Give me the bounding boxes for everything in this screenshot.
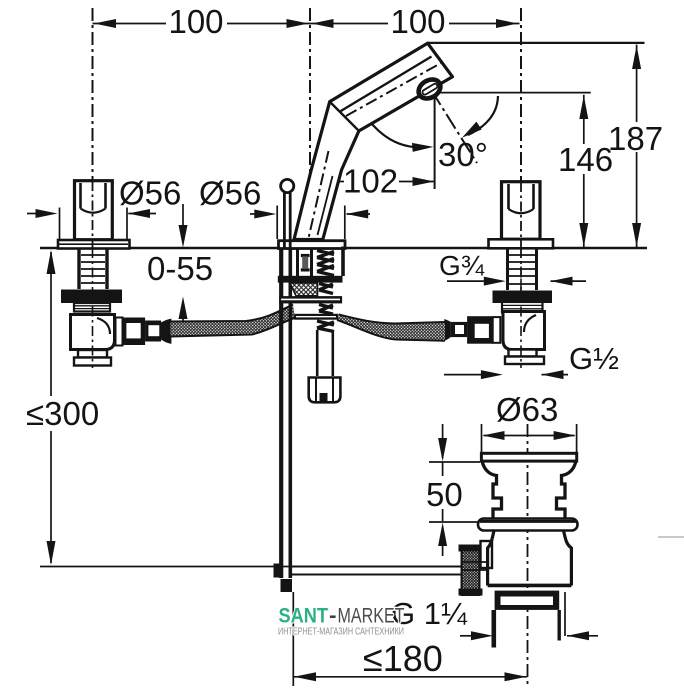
right lock rings (502, 302, 543, 313)
right hose spool waist (451, 322, 467, 337)
dimension 50 (426, 424, 480, 556)
clamp bracket (481, 541, 493, 568)
lift rod (281, 193, 290, 578)
top face inner edge (340, 57, 432, 112)
vertical line from aerator (102 reference) (434, 94, 436, 189)
lift rod lower tab (274, 564, 283, 578)
svg-text:Ø56: Ø56 (119, 175, 181, 212)
lattice clamp block (290, 283, 318, 296)
left handle escutcheon (58, 240, 130, 249)
drain head castellated profile (482, 462, 576, 519)
faint crop line bottom right (658, 536, 684, 538)
dimension 187 vertical (428, 43, 663, 247)
right handle escutcheon (489, 239, 554, 248)
left mounting nut (61, 290, 122, 304)
dimension d56 left flange arrows (27, 208, 156, 240)
left lock rings (74, 303, 110, 312)
svg-text:G½: G½ (569, 341, 619, 376)
middle escutcheon flange (279, 241, 346, 249)
dimension 100 right (310, 3, 520, 40)
left handle centerline below deck (92, 248, 94, 368)
svg-text:50: 50 (426, 476, 463, 513)
svg-text:SANT: SANT (279, 605, 329, 628)
drain centerline (527, 424, 529, 686)
left braided hose (171, 305, 297, 337)
right hose spool flare (444, 319, 451, 341)
threaded stud coil lower (317, 321, 334, 332)
dimension 146 vertical (438, 93, 613, 247)
deck line (40, 247, 647, 250)
lift rod knob (281, 179, 294, 192)
G1 1/4 dimension (391, 592, 598, 640)
watermark SANT-MARKET (278, 605, 405, 638)
drain head top plate (481, 453, 576, 461)
svg-text:-: - (329, 605, 337, 628)
svg-text:ИНТЕРНЕТ-МАГАЗИН САНТЕХНИКИ: ИНТЕРНЕТ-МАГАЗИН САНТЕХНИКИ (278, 627, 404, 638)
dimension le300 (26, 250, 292, 567)
left shank threaded (79, 249, 107, 289)
spout axis dash-dot upper (346, 63, 441, 116)
coil between bars (319, 284, 333, 294)
svg-text:146: 146 (558, 141, 613, 178)
black bar 1 (278, 276, 343, 283)
lift rod end tip (281, 579, 293, 592)
left hose spool waist (145, 321, 161, 342)
black bar 3 (294, 314, 338, 320)
svg-text:≤300: ≤300 (26, 395, 99, 432)
coil below bar2 (319, 305, 333, 315)
centerline left handle (92, 8, 94, 240)
pop-up rod horizontal (292, 567, 462, 575)
G1/2 label and arrows (444, 341, 619, 379)
centerline right handle (520, 8, 522, 240)
svg-text:MARKET: MARKET (338, 605, 405, 628)
right elbow foot (505, 350, 544, 365)
dimension 100 left (93, 3, 311, 40)
locknut (495, 591, 560, 610)
aerator (415, 76, 444, 103)
svg-text:0-55: 0-55 (147, 250, 213, 287)
tailpipe (494, 610, 559, 648)
centerline middle body (309, 8, 311, 176)
spout body (294, 43, 453, 239)
svg-text:30°: 30° (438, 136, 488, 173)
svg-text:187: 187 (608, 120, 663, 157)
right elbow body (503, 312, 545, 350)
left handle body (75, 181, 113, 240)
right handle centerline below deck (520, 248, 522, 368)
center cartridge below deck (298, 249, 312, 276)
G3/4 label and arrows (439, 250, 586, 286)
right mounting nut (493, 291, 553, 304)
drain body (488, 531, 572, 586)
left hose joint collar (116, 318, 123, 346)
arc from spout to vertical line (left) (372, 124, 434, 152)
le180 left extension line (292, 592, 294, 686)
spout axis dash-dot lower (309, 151, 329, 238)
lower arm inner line (318, 176, 333, 235)
left elbow body (71, 315, 115, 350)
svg-text:≤180: ≤180 (363, 638, 443, 679)
black bar 2 (279, 296, 342, 303)
knurled clamp (459, 545, 483, 596)
threaded stud coil top (317, 251, 334, 276)
right shank threaded (508, 249, 537, 290)
right handle body (502, 182, 541, 240)
left handle centerline overlay (92, 181, 94, 248)
svg-text:102: 102 (343, 163, 398, 200)
dimension d63 (482, 391, 577, 452)
arc from 146-line to stream line (right) (462, 96, 498, 138)
dash-dot 30 degree stream line (432, 91, 478, 164)
sink flange plate (478, 519, 578, 531)
dimension 102 (336, 163, 434, 200)
svg-text:G¾: G¾ (439, 250, 485, 281)
right hose connector hex (467, 316, 493, 344)
stud smooth tube (317, 330, 333, 376)
left hose connector hex (122, 318, 145, 346)
dimension le180 (293, 638, 527, 681)
right braided hose (337, 315, 445, 341)
drain body rod lines (462, 562, 487, 570)
svg-text:100: 100 (390, 3, 445, 40)
svg-text:Ø56: Ø56 (199, 175, 261, 212)
left hose spool flare (161, 319, 171, 344)
stud nut (309, 378, 341, 403)
right hose joint collar (493, 317, 501, 343)
bend seam (330, 102, 359, 131)
dimension 0-55 (147, 204, 213, 322)
center shank right wall (341, 247, 345, 277)
svg-text:Ø63: Ø63 (496, 391, 558, 428)
dimension d56 middle flange arrows (250, 206, 370, 240)
left elbow foot (74, 350, 111, 366)
svg-text:100: 100 (168, 3, 223, 40)
right handle centerline overlay (520, 182, 522, 248)
